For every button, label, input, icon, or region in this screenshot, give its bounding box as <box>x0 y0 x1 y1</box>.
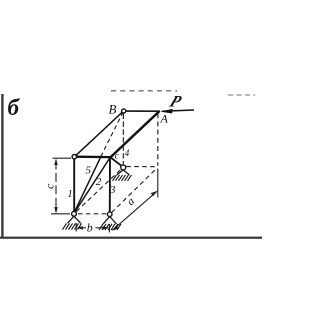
svg-text:1: 1 <box>67 188 73 200</box>
svg-text:б: б <box>8 95 21 120</box>
svg-text:4: 4 <box>125 148 130 158</box>
svg-text:2: 2 <box>96 176 102 188</box>
svg-text:A: A <box>160 112 169 126</box>
svg-text:P: P <box>166 92 185 110</box>
svg-text:5: 5 <box>86 165 92 177</box>
svg-text:a: a <box>125 195 137 208</box>
svg-text:3: 3 <box>109 184 116 196</box>
svg-text:B: B <box>109 102 117 117</box>
svg-text:c: c <box>115 151 119 161</box>
svg-text:c: c <box>42 183 56 189</box>
svg-text:b: b <box>87 221 93 235</box>
